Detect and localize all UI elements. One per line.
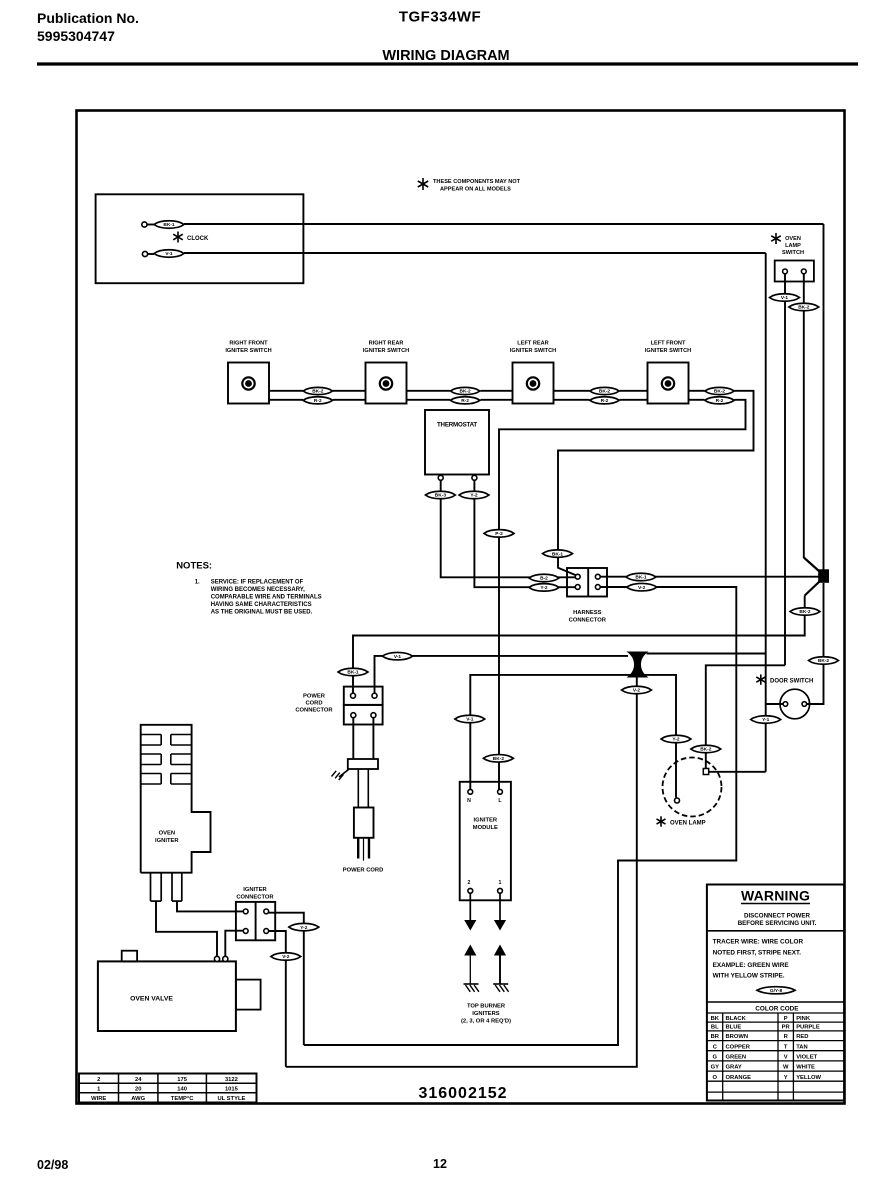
svg-text:CONNECTOR: CONNECTOR (236, 895, 274, 901)
svg-text:TAN: TAN (796, 1044, 807, 1050)
svg-text:BEFORE SERVICING UNIT.: BEFORE SERVICING UNIT. (738, 920, 817, 927)
wire: connector BR to plug (372, 718, 374, 759)
terminal pair 3 lower R-2 (590, 397, 619, 404)
svg-text:PINK: PINK (796, 1016, 811, 1022)
svg-text:MODULE: MODULE (473, 825, 498, 831)
warning title (741, 888, 810, 904)
svg-text:BK-1: BK-1 (635, 575, 647, 581)
svg-text:NOTES:: NOTES: (176, 561, 212, 572)
svg-text:Publication No.: Publication No. (37, 10, 139, 26)
oven lamp switch S1 body (775, 261, 814, 282)
power cord connector pin BL (351, 713, 356, 718)
svg-text:BK-3: BK-3 (435, 493, 447, 499)
svg-text:140: 140 (177, 1087, 187, 1093)
wire: oven valve pin2 to igniter connector LB (225, 931, 243, 957)
header rule (37, 62, 858, 65)
thermostat pin right (472, 475, 477, 481)
svg-text:T: T (784, 1044, 788, 1050)
svg-text:02/98: 02/98 (37, 1158, 68, 1172)
svg-text:V-2: V-2 (282, 954, 290, 960)
svg-text:GREEN: GREEN (726, 1055, 747, 1061)
igniter connector label (236, 887, 274, 901)
svg-text:IGNITERS: IGNITERS (472, 1011, 500, 1017)
svg-text:TGF334WF: TGF334WF (399, 9, 481, 26)
svg-text:WARNING: WARNING (741, 888, 810, 904)
wire: clock V-1 to right vertical (184, 252, 766, 254)
document header: publication number (37, 10, 139, 44)
thermostat pin left (438, 475, 443, 481)
svg-text:BROWN: BROWN (726, 1034, 749, 1040)
svg-text:WIRE: WIRE (91, 1096, 106, 1102)
svg-text:PR: PR (782, 1025, 791, 1031)
terminal pair 3 upper BK-2 (590, 387, 619, 394)
svg-text:DISCONNECT POWER: DISCONNECT POWER (744, 913, 811, 920)
wire: thermostat right pin to harness (474, 480, 577, 587)
svg-text:APPEAR ON ALL MODELS: APPEAR ON ALL MODELS (440, 187, 511, 193)
wire: igniter module N riser to junction and oven lamp (470, 675, 676, 798)
svg-text:BK-2: BK-2 (459, 389, 471, 395)
svg-text:IGNITER: IGNITER (155, 838, 179, 844)
terminal B-2 left of harness (529, 574, 559, 582)
terminal Y-2 on thermostat right wire (459, 491, 489, 499)
svg-text:BK-2: BK-2 (700, 747, 712, 753)
svg-text:V-2: V-2 (633, 688, 641, 694)
wire: splice down to door switch (807, 583, 824, 704)
wire: igniter right leg to igniter connector LT (177, 901, 244, 911)
svg-text:3122: 3122 (225, 1077, 238, 1083)
igniter module label (473, 818, 498, 832)
terminal pair 1 lower R-2 (303, 397, 333, 404)
door switch pin left (783, 702, 788, 707)
warning box frame (707, 885, 844, 1101)
spark output arrow from pin 1 (494, 893, 506, 930)
terminal BK-2 on lamp switch pin2 wire (789, 303, 819, 311)
svg-text:OVEN: OVEN (159, 831, 175, 837)
tracer example terminal G/Y-8 (757, 987, 795, 994)
oven lamp switch pin 2 (801, 269, 806, 274)
wire: door switch left pin to neutral riser (766, 703, 783, 705)
svg-text:P-2: P-2 (495, 531, 503, 537)
wire: oven lamp right pin to neutral riser (709, 771, 766, 773)
svg-text:(2, 3, OR 4 REQ'D): (2, 3, OR 4 REQ'D) (461, 1019, 511, 1025)
svg-text:BK-2: BK-2 (599, 389, 611, 395)
wire: harness RB to igniter connector (long run) (304, 587, 737, 1045)
svg-text:POWER: POWER (303, 694, 326, 700)
right rear igniter switch body (366, 363, 407, 404)
terminal BK-2 on igniter module L wire (483, 755, 513, 763)
svg-text:WIRING DIAGRAM: WIRING DIAGRAM (382, 48, 509, 64)
oven valve pin1 (214, 956, 219, 961)
thermostat TH1 body (425, 410, 489, 475)
svg-text:RED: RED (796, 1034, 808, 1040)
clock CL1 enclosure box (96, 194, 304, 283)
svg-text:NOTED FIRST, STRIPE NEXT.: NOTED FIRST, STRIPE NEXT. (713, 950, 802, 957)
svg-text:V-1: V-1 (781, 295, 789, 301)
svg-text:WITH YELLOW STRIPE.: WITH YELLOW STRIPE. (713, 973, 785, 980)
oven lamp pin right (square) (703, 769, 708, 775)
svg-text:OVEN LAMP: OVEN LAMP (670, 821, 706, 827)
svg-text:1015: 1015 (225, 1087, 239, 1093)
wire: igniter connector RB right and down (V-2 run) (269, 931, 286, 1067)
svg-text:Y-2: Y-2 (300, 925, 308, 931)
svg-text:IGNITER: IGNITER (243, 887, 267, 893)
svg-text:R-2: R-2 (716, 398, 724, 404)
oven valve body (98, 951, 261, 1031)
svg-text:CLOCK: CLOCK (187, 236, 209, 242)
terminal BK-1 above harness connector (543, 550, 573, 558)
svg-text:TEMP°C: TEMP°C (171, 1096, 194, 1102)
wire: lamp switch pin2 down (803, 274, 805, 558)
wire: clock V-1 vertical down (neutral riser) (765, 253, 767, 772)
svg-text:HAVING SAME CHARACTERISTICS: HAVING SAME CHARACTERISTICS (211, 602, 312, 608)
terminal BK-1 right of harness (626, 573, 656, 581)
power cord connector pin TL (351, 693, 356, 698)
igniter connector pin LB (243, 929, 248, 934)
svg-text:2: 2 (97, 1077, 100, 1083)
wire: power cord connector neutral up and right to junction (375, 656, 629, 693)
svg-text:CORD: CORD (305, 701, 322, 707)
oven lamp bulb (dashed circle) (663, 758, 722, 817)
wire specification table entries (91, 1077, 245, 1102)
svg-text:V-1: V-1 (394, 654, 402, 660)
terminal P-2 on igniter module L wire (484, 530, 514, 538)
oven lamp switch label (771, 233, 804, 256)
svg-text:EXAMPLE: GREEN WIRE: EXAMPLE: GREEN WIRE (713, 962, 790, 969)
svg-text:W: W (783, 1065, 789, 1071)
svg-text:P: P (784, 1016, 788, 1022)
igniter connector pin RT (264, 909, 269, 914)
color code header (707, 1002, 844, 1013)
terminal pair 4 upper BK-2 (705, 387, 734, 394)
right rear igniter switch label (363, 341, 409, 354)
igniter module pin 1 (498, 880, 503, 893)
svg-text:BR: BR (711, 1034, 720, 1040)
terminal BK-2 on oven lamp right wire (691, 745, 721, 753)
power cord plug cap (348, 759, 378, 769)
oven igniter leg right (172, 873, 182, 901)
igniter module pin 2 (468, 880, 473, 893)
svg-text:SERVICE: IF REPLACEMENT OF: SERVICE: IF REPLACEMENT OF (211, 580, 304, 586)
svg-text:RIGHT REAR: RIGHT REAR (369, 341, 404, 347)
left rear igniter switch label (510, 341, 556, 354)
terminal BK-2 on door switch feed (809, 657, 839, 665)
clock terminal BK-1 (top) (142, 222, 154, 227)
wire: splice down to power cord connector (hot) (353, 596, 805, 694)
svg-text:PURPLE: PURPLE (796, 1025, 820, 1031)
svg-text:R-2: R-2 (601, 398, 609, 404)
svg-text:CONNECTOR: CONNECTOR (569, 618, 607, 624)
power cord body block (354, 808, 374, 838)
svg-text:OVEN VALVE: OVEN VALVE (130, 996, 173, 1003)
igniter module body (460, 782, 511, 901)
terminal Y-1 on neutral riser (751, 716, 781, 724)
wire: upper bus to harness riser (558, 391, 754, 576)
svg-text:SWITCH: SWITCH (782, 250, 804, 256)
oven lamp pin left (675, 798, 680, 803)
wire: igniter left leg to oven valve pin1 (156, 901, 217, 956)
svg-text:OVEN: OVEN (785, 236, 801, 242)
svg-text:BLUE: BLUE (726, 1025, 742, 1031)
oven lamp label (657, 816, 706, 826)
svg-text:BK-2: BK-2 (312, 389, 324, 395)
top burner igniter electrode left (464, 945, 479, 992)
svg-text:V-1: V-1 (466, 717, 474, 723)
door switch pin right (802, 702, 807, 707)
svg-text:5995304747: 5995304747 (37, 28, 115, 44)
harness connector pin RT (595, 574, 600, 579)
svg-text:BK-2: BK-2 (493, 756, 505, 762)
svg-text:LAMP: LAMP (785, 243, 801, 249)
svg-text:YELLOW: YELLOW (796, 1075, 821, 1081)
svg-text:BK-2: BK-2 (818, 658, 830, 664)
svg-text:175: 175 (177, 1077, 187, 1083)
igniter module pin L (498, 789, 503, 804)
left front igniter switch body (648, 363, 689, 404)
wire: lamp switch pin1 down (784, 274, 786, 666)
terminal BK-2 below splice (790, 608, 820, 616)
wire: junction right branch to neutral riser (647, 653, 766, 655)
notes text block (176, 561, 322, 616)
svg-text:Y: Y (784, 1075, 788, 1081)
svg-text:R-2: R-2 (461, 398, 469, 404)
harness connector J1 body (567, 568, 607, 597)
power cord shaft (358, 769, 368, 808)
power cord connector pin TR (372, 693, 377, 698)
svg-text:GY: GY (711, 1065, 720, 1071)
svg-text:IGNITER SWITCH: IGNITER SWITCH (645, 348, 691, 354)
svg-text:TRACER WIRE: WIRE COLOR: TRACER WIRE: WIRE COLOR (713, 939, 804, 946)
bus wire: igniter switch row upper conductor (269, 390, 705, 392)
svg-text:G: G (713, 1055, 718, 1061)
svg-text:IGNITER: IGNITER (474, 818, 498, 824)
wire: lamp switch feed down to oven lamp (706, 665, 785, 768)
svg-text:COPPER: COPPER (726, 1044, 751, 1050)
note: these components may not appear on all models (418, 178, 521, 193)
chassis ground symbol (332, 770, 349, 781)
svg-text:BK-2: BK-2 (798, 305, 810, 311)
svg-text:BK-1: BK-1 (552, 551, 564, 557)
svg-text:316002152: 316002152 (418, 1085, 507, 1102)
svg-text:IGNITER SWITCH: IGNITER SWITCH (363, 348, 409, 354)
terminal V-1 on lamp switch pin1 wire (770, 294, 800, 302)
svg-text:V-1: V-1 (165, 251, 173, 257)
svg-text:HARNESS: HARNESS (573, 610, 601, 616)
clock terminal V-1 (bottom) (142, 251, 154, 256)
svg-text:VIOLET: VIOLET (796, 1055, 817, 1061)
terminal pair 2 lower R-2 (450, 397, 480, 404)
oven igniter leg left (151, 873, 162, 901)
svg-text:AWG: AWG (131, 1096, 145, 1102)
wire specification table (79, 1074, 257, 1103)
svg-text:N: N (467, 798, 471, 804)
svg-text:Y-2: Y-2 (672, 737, 680, 743)
terminal V-1 on igniter module N wire (455, 715, 485, 723)
svg-text:24: 24 (135, 1077, 142, 1083)
wire: connector BL to plug (352, 718, 354, 759)
oven valve pin2 (223, 956, 228, 961)
wire: harness RT to splice (hot feed) (600, 576, 819, 578)
power cord connector label (295, 694, 333, 714)
svg-text:BLACK: BLACK (726, 1016, 747, 1022)
svg-text:WHITE: WHITE (796, 1065, 815, 1071)
svg-text:Y-2: Y-2 (540, 585, 548, 591)
svg-text:LEFT REAR: LEFT REAR (517, 341, 548, 347)
svg-text:GRAY: GRAY (726, 1065, 742, 1071)
wire: lower bus to igniter module L riser (499, 400, 746, 792)
svg-text:2: 2 (468, 880, 471, 886)
terminal V-2 right of harness (627, 583, 657, 591)
wire: thermostat left pin to harness (441, 480, 578, 577)
harness connector pin LB (575, 585, 580, 590)
oven igniter label (155, 831, 179, 845)
wire: clock BK-1 vertical down to splice (823, 224, 825, 570)
color code table entries (711, 1016, 822, 1081)
svg-text:ORANGE: ORANGE (726, 1075, 752, 1081)
top burner igniters label (461, 1004, 511, 1025)
door switch label (756, 674, 813, 684)
top burner igniter electrode right (493, 945, 508, 992)
svg-text:CONNECTOR: CONNECTOR (295, 708, 333, 714)
splice junction (solid) (804, 558, 829, 596)
svg-text:TOP BURNER: TOP BURNER (467, 1004, 506, 1010)
svg-text:1: 1 (499, 880, 502, 886)
terminal V-2 below bowtie junction (622, 686, 652, 694)
terminal V-2 on igniter connector RB wire (271, 953, 301, 961)
oven lamp switch pin 1 (783, 269, 788, 274)
terminal BK-1 above power cord connector (338, 668, 368, 676)
svg-text:THERMOSTAT: THERMOSTAT (437, 422, 477, 429)
harness connector pin RB (595, 585, 600, 590)
warning divider (707, 930, 844, 932)
terminal Y-2 on oven lamp left wire (661, 735, 691, 743)
svg-text:BK: BK (711, 1016, 720, 1022)
terminal pair 4 lower R-2 (705, 397, 734, 404)
svg-text:BK-2: BK-2 (799, 609, 811, 615)
harness connector label (569, 610, 607, 624)
bowtie junction (solid) (627, 652, 649, 678)
svg-text:12: 12 (433, 1157, 447, 1171)
oven igniter heater slots (141, 735, 192, 785)
igniter connector pin LT (243, 909, 248, 914)
wire: clock BK-1 to right vertical (184, 223, 824, 225)
terminal V-1 on power cord neutral wire (383, 652, 413, 660)
svg-text:B-2: B-2 (540, 576, 548, 582)
power cord connector body (344, 687, 383, 725)
svg-text:R-2: R-2 (314, 398, 322, 404)
igniter connector pin RB (264, 929, 269, 934)
svg-text:DOOR SWITCH: DOOR SWITCH (770, 679, 813, 685)
svg-text:IGNITER SWITCH: IGNITER SWITCH (510, 348, 556, 354)
terminal Y-2 left of harness (529, 584, 559, 592)
svg-text:THESE COMPONENTS MAY NOT: THESE COMPONENTS MAY NOT (433, 179, 521, 185)
svg-text:O: O (713, 1075, 718, 1081)
igniter module pin N (467, 789, 473, 804)
svg-text:BL: BL (711, 1025, 719, 1031)
right front igniter switch label (225, 341, 271, 354)
svg-text:Y-2: Y-2 (470, 493, 478, 499)
svg-text:RIGHT FRONT: RIGHT FRONT (229, 341, 268, 347)
door switch S2 body (780, 689, 810, 719)
tracer wire text (713, 939, 804, 980)
power cord connector pin BR (371, 713, 376, 718)
diagram border frame (77, 111, 845, 1104)
left front igniter switch label (645, 341, 691, 354)
svg-text:V-2: V-2 (638, 585, 646, 591)
power cord prongs (358, 838, 369, 861)
svg-text:POWER CORD: POWER CORD (343, 868, 384, 874)
svg-text:20: 20 (135, 1087, 141, 1093)
harness connector pin LT (575, 574, 580, 579)
clock label (173, 232, 209, 243)
color code table grid (707, 1013, 844, 1101)
svg-text:LEFT FRONT: LEFT FRONT (651, 341, 686, 347)
right front igniter switch body (228, 363, 269, 404)
svg-text:WIRING BECOMES NECESSARY,: WIRING BECOMES NECESSARY, (211, 587, 305, 593)
spark output arrow from pin 2 (464, 893, 476, 930)
warning text (738, 913, 817, 928)
svg-text:G/Y-8: G/Y-8 (770, 988, 783, 994)
terminal pair 2 upper BK-2 (450, 387, 480, 394)
wire: junction down branch to igniter connector (286, 665, 637, 1067)
svg-text:BK-1: BK-1 (347, 670, 359, 676)
terminal pair 1 upper BK-2 (303, 387, 333, 394)
left rear igniter switch body (513, 363, 554, 404)
svg-text:BK-1: BK-1 (163, 222, 175, 228)
svg-text:AS THE ORIGINAL MUST BE USED.: AS THE ORIGINAL MUST BE USED. (211, 610, 313, 616)
svg-text:UL STYLE: UL STYLE (217, 1096, 245, 1102)
svg-text:1.: 1. (195, 580, 200, 586)
svg-text:IGNITER SWITCH: IGNITER SWITCH (225, 348, 271, 354)
svg-text:BK-2: BK-2 (714, 389, 726, 395)
wire: igniter connector RT right and down (Y-2 run) (269, 913, 304, 1045)
igniter connector body (236, 902, 275, 940)
svg-text:COMPARABLE WIRE AND TERMINALS: COMPARABLE WIRE AND TERMINALS (211, 595, 322, 601)
terminal BK-3 on thermostat left wire (425, 491, 455, 499)
svg-text:COLOR CODE: COLOR CODE (755, 1006, 799, 1013)
oven igniter body (141, 725, 211, 873)
bus wire: igniter switch row lower conductor (269, 399, 705, 401)
svg-text:Y-1: Y-1 (762, 717, 770, 723)
terminal Y-2 on igniter connector RT wire (289, 923, 319, 931)
svg-text:V: V (784, 1055, 788, 1061)
